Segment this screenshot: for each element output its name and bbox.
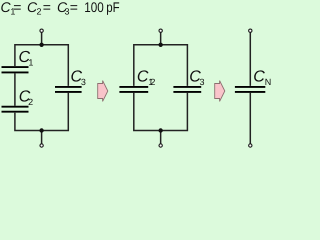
terminal: circuit 3 top	[248, 29, 252, 33]
wire: circuit 1 loop	[15, 45, 68, 131]
terminal: circuit 3 bottom	[248, 143, 252, 147]
terminal: circuit 2 top	[158, 29, 162, 33]
wire: circuit 2 loop	[134, 45, 188, 131]
capacitor C2	[2, 107, 29, 112]
terminal: circuit 1 top	[39, 29, 43, 33]
terminal: circuit 1 bottom	[39, 143, 43, 147]
arrow 2	[215, 81, 225, 102]
terminal: circuit 2 bottom	[158, 143, 162, 147]
wire: circuit 1 top terminal stem	[41, 31, 43, 45]
capacitor C12	[119, 87, 148, 92]
capacitor C3 (circuit 1)	[55, 87, 82, 92]
capacitor CN	[235, 87, 265, 92]
node: circuit 1 top junction dot	[39, 43, 43, 47]
node: circuit 1 bottom junction dot	[39, 128, 43, 132]
node: circuit 2 bottom junction dot	[158, 128, 162, 132]
wire: circuit 2 bottom terminal stem	[160, 131, 162, 145]
arrow 1	[98, 81, 108, 102]
wire: circuit 3 vertical	[249, 31, 251, 145]
wire: circuit 1 bottom terminal stem	[41, 131, 43, 145]
capacitor C1	[2, 67, 29, 72]
svg-text:C1=C2=C3=100pF: C1=C2=C3=100pF	[1, 0, 120, 17]
node: circuit 2 top junction dot	[158, 43, 162, 47]
wire: circuit 2 top terminal stem	[160, 31, 162, 45]
capacitor C3 (circuit 2)	[173, 87, 201, 92]
